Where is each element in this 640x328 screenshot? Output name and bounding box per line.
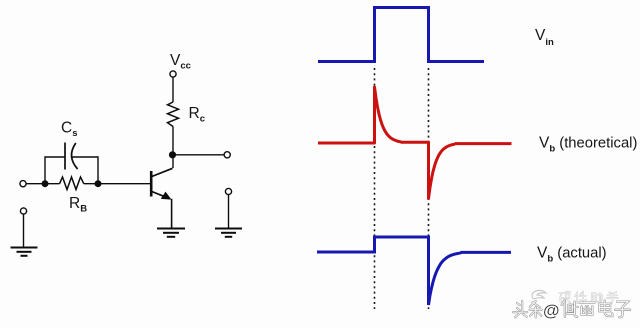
terminal: output port circle — [224, 152, 230, 158]
wire: capacitor to node B — [72, 157, 98, 184]
capacitor Cs: curved plate — [72, 143, 78, 169]
ground (output side) — [215, 229, 242, 237]
watermark text lower (toutiao handle glyph strokes) — [513, 301, 630, 318]
wire: collector node to output — [173, 154, 225, 156]
waveform Vin (input square pulse) — [318, 8, 484, 62]
transistor Q1: emitter arrowhead — [161, 192, 172, 200]
wire: RC to collector node — [172, 127, 174, 169]
terminal: Vcc port circle — [170, 71, 176, 77]
terminal: input ground port circle — [20, 208, 26, 214]
svg-text:Vin: Vin — [535, 27, 554, 48]
svg-text:Vcc: Vcc — [170, 52, 191, 72]
transistor Q1: collector lead — [152, 168, 173, 176]
ground (emitter) — [157, 229, 185, 237]
node: timing marker t1 (dotted line) — [374, 68, 376, 309]
node C (collector) junction dot — [170, 152, 176, 158]
svg-text:Cs: Cs — [61, 120, 78, 140]
svg-text:RB: RB — [69, 195, 87, 215]
waveform Vb actual (blue base voltage) — [317, 237, 511, 305]
wire: input ground stem — [23, 214, 25, 247]
node B junction dot — [95, 181, 101, 187]
wire: Vcc to resistor RC — [172, 77, 174, 102]
transistor Q1: emitter lead — [152, 192, 170, 199]
node A junction dot — [42, 181, 48, 187]
CIRCUIT (black, left side) — [11, 71, 243, 256]
terminal: input port circle — [20, 181, 26, 187]
svg-text:Rc: Rc — [189, 105, 206, 125]
wire: RB to node B and on to transistor base — [84, 183, 151, 185]
capacitor Cs: flat plate — [64, 143, 66, 170]
watermark logo swoosh — [532, 290, 546, 299]
wire: output ground stem — [228, 195, 230, 228]
wire: input to node A — [26, 183, 59, 185]
resistor RB (zigzag) — [60, 177, 84, 190]
resistor RC (vertical zigzag) — [168, 102, 179, 127]
waveform Vb theoretical (red differentiated spikes) — [318, 87, 512, 199]
svg-text:Vb (actual): Vb (actual) — [537, 245, 607, 265]
ground (input side) — [11, 248, 38, 256]
node: timing marker t2 (dotted line) — [428, 68, 430, 309]
transistor Q1: base bar — [150, 171, 153, 197]
svg-text:Vb (theoretical): Vb (theoretical) — [539, 135, 637, 155]
wire: node A up to capacitor branch — [45, 157, 65, 184]
svg-text:@: @ — [543, 301, 560, 320]
wire: emitter to ground — [171, 199, 173, 228]
terminal: output ground port circle — [225, 188, 231, 194]
watermark text upper (hardware-assistant glyph strokes) — [559, 292, 618, 304]
